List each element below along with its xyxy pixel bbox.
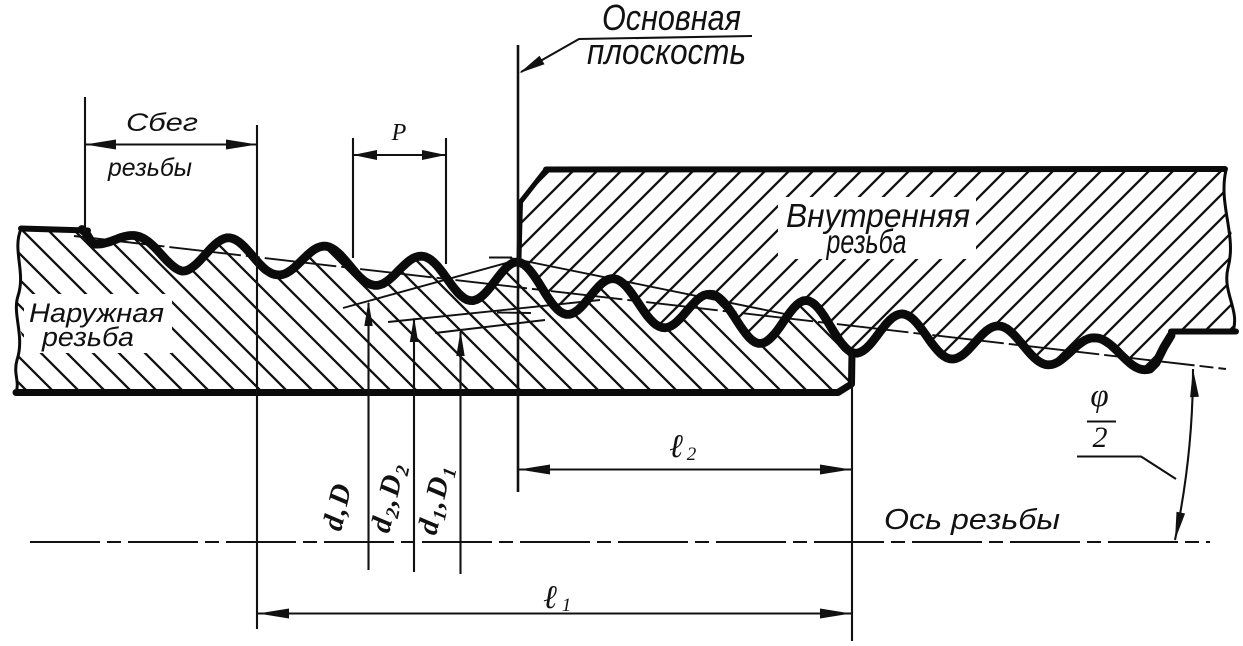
svg-text:Сбег: Сбег — [126, 109, 198, 137]
svg-text:резьба: резьба — [826, 223, 907, 260]
svg-text:P: P — [391, 120, 407, 146]
svg-text:2: 2 — [1093, 421, 1108, 454]
svg-text:плоскость: плоскость — [587, 31, 746, 72]
svg-text:1: 1 — [562, 595, 572, 616]
svg-text:2: 2 — [687, 444, 697, 465]
svg-text:резьбы: резьбы — [107, 154, 192, 182]
svg-text:резьба: резьба — [41, 322, 134, 352]
svg-text:ℓ: ℓ — [543, 580, 557, 616]
svg-text:Ось резьбы: Ось резьбы — [884, 504, 1060, 536]
svg-text:ℓ: ℓ — [669, 429, 683, 465]
svg-text:φ: φ — [1090, 378, 1108, 414]
